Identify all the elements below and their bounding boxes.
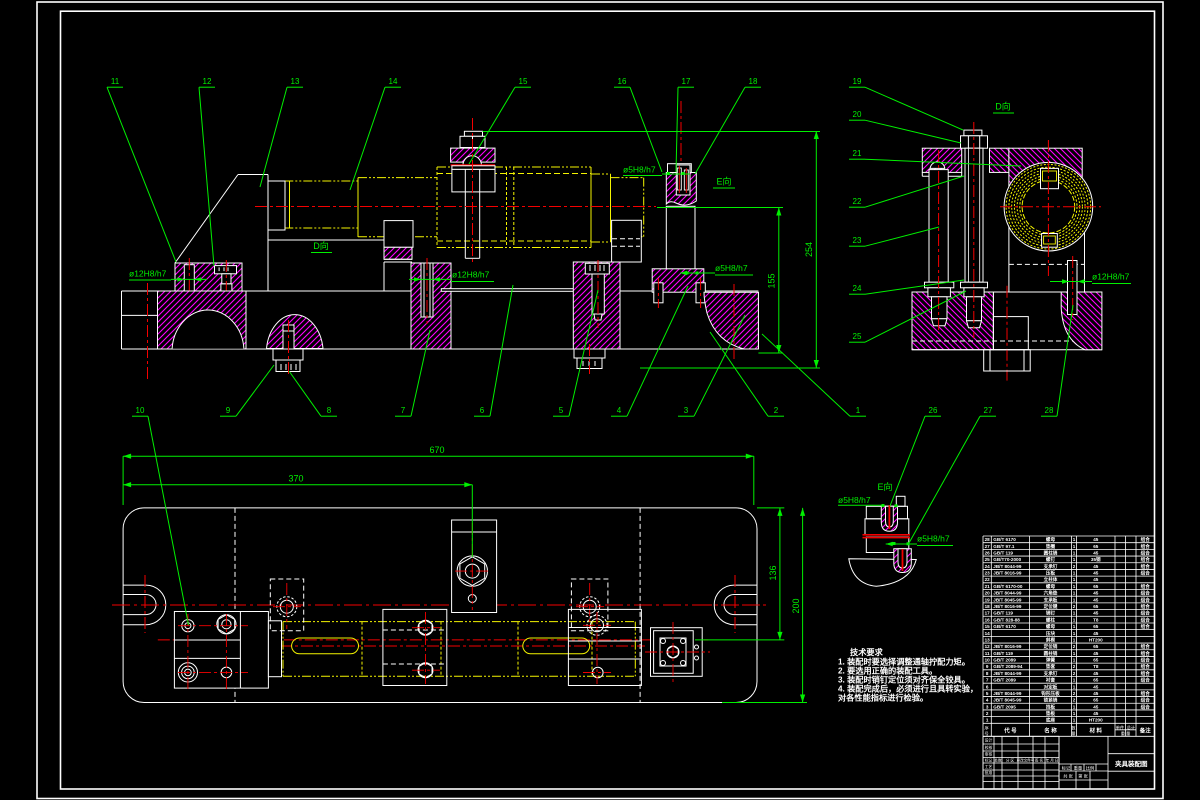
plan view: dome-bolt pedestal plan [270,579,303,631]
front view: thin adjust plate (part 6) [441,289,582,292]
dimension phi5H8/h7 mid [680,263,753,275]
svg-text:GB/T 828-88: GB/T 828-88 [993,617,1020,622]
svg-text:立柱体: 立柱体 [1044,576,1058,583]
svg-text:共 张: 共 张 [1063,773,1073,780]
detail view E: red joint lines [863,535,911,538]
svg-text:比例: 比例 [1086,765,1094,772]
svg-text:总计: 总计 [1127,724,1135,731]
side view: stud B with hex nut (parts 19/20) [961,122,988,338]
plan view: clamp strap plan [452,520,497,613]
svg-text:3. 装配时销钉定位须对齐保全铰具。: 3. 装配时销钉定位须对齐保全铰具。 [838,675,970,685]
plan view: left clamping U-slot [112,575,757,633]
svg-text:GB/T 97.1: GB/T 97.1 [993,544,1015,549]
svg-text:JB/T 8045-99: JB/T 8045-99 [993,597,1022,602]
svg-text:衬套: 衬套 [1046,677,1056,684]
svg-text:第 张: 第 张 [1078,773,1088,780]
svg-text:1: 1 [1073,704,1076,709]
svg-text:7: 7 [986,678,989,683]
balloon 22 leader [849,176,964,207]
svg-text:代 号: 代 号 [1003,726,1017,734]
svg-text:销钉: 销钉 [1046,610,1056,617]
svg-text:7: 7 [401,406,406,415]
plan view: left bracket block [174,612,281,691]
svg-text:4. 装配完成后，必须进行且具转实验，: 4. 装配完成后，必须进行且具转实验， [838,684,978,694]
svg-text:4: 4 [986,698,989,703]
svg-text:年 月 日: 年 月 日 [1046,758,1059,763]
svg-text:垫板: 垫板 [1046,710,1056,717]
svg-text:1: 1 [1073,684,1076,689]
svg-text:19: 19 [985,597,991,602]
svg-text:JB/T 8044-99: JB/T 8044-99 [993,591,1022,596]
svg-text:T8: T8 [1093,617,1099,622]
svg-text:ø5H8/h7: ø5H8/h7 [623,165,656,175]
balloon 24 leader [849,280,964,294]
front view: main shaft centerline [255,206,656,208]
svg-text:20: 20 [985,591,991,596]
svg-text:18: 18 [985,604,991,609]
side view: base middle [912,286,1102,381]
front view: dome mound over T-bolt [267,315,324,349]
svg-text:65: 65 [1093,584,1099,589]
balloon 2 leader [710,332,784,416]
svg-text:底座: 底座 [1046,717,1056,724]
svg-text:名 称: 名 称 [1044,726,1057,734]
svg-text:组合: 组合 [1141,570,1151,577]
svg-text:E向: E向 [877,481,892,492]
svg-text:65: 65 [1093,698,1099,703]
svg-text:HT200: HT200 [1089,637,1103,642]
svg-text:组合: 组合 [1141,643,1151,650]
svg-text:15: 15 [985,624,991,629]
dimension 200 [722,508,807,703]
side view: base right block (hatched, concave) [1061,292,1102,350]
svg-text:ø12H8/h7: ø12H8/h7 [1092,272,1130,282]
svg-text:23: 23 [985,571,991,576]
plan view: workpiece shaft (yellow phantom) [283,622,635,677]
plan view: left V-block plan [383,609,447,685]
dimension phi12H8/h7 mid [409,270,494,282]
svg-text:6: 6 [986,684,989,689]
balloon 5 leader [553,290,598,416]
svg-text:6: 6 [480,406,485,415]
svg-text:45: 45 [1093,671,1099,676]
front view: E column bushing pins (parts 16/17) [677,101,688,193]
svg-text:组合: 组合 [1141,556,1151,563]
svg-text:2: 2 [1073,664,1076,669]
front view: right support block (hatched, concave) [704,284,758,362]
svg-text:3: 3 [684,406,689,415]
svg-text:更改文件号: 更改文件号 [1017,758,1035,763]
svg-text:45: 45 [1093,597,1099,602]
balloon 14 leader [350,87,401,190]
svg-text:1: 1 [1073,711,1076,716]
svg-text:2: 2 [1073,691,1076,696]
plan view: E column clamp plan [645,622,710,682]
front view: bracket pins [654,278,706,308]
front view: left support block (hatched) [175,263,242,291]
svg-text:16: 16 [618,77,627,86]
front view: T-bolt (parts 8/9) [273,320,303,377]
front view: clamp strap (part 13, hatched) [451,148,495,162]
svg-text:组合: 组合 [1141,549,1151,556]
svg-text:1: 1 [1073,658,1076,663]
dimension phi5H8/h7 top [623,165,690,176]
balloon 6 leader [474,285,513,416]
plan view: shaft axis centerline [280,645,645,647]
svg-text:组合: 组合 [1141,603,1151,610]
svg-text:标记: 标记 [1062,765,1071,772]
svg-text:136: 136 [768,565,778,580]
svg-text:8: 8 [327,406,332,415]
svg-text:定位销: 定位销 [1044,643,1058,650]
balloon 16 leader [614,87,662,172]
svg-text:45: 45 [1093,651,1099,656]
side view: foot block [984,350,1030,371]
front view: pedestal dowel pin (part 7) [421,258,433,324]
svg-text:钩形压板: 钩形压板 [1041,690,1060,697]
balloon 26 leader [890,416,941,506]
dimension phi12H8/h7 left [129,269,207,282]
svg-text:1: 1 [1073,591,1076,596]
svg-text:技术要求: 技术要求 [850,647,884,657]
svg-text:圆柱销: 圆柱销 [1044,549,1058,556]
svg-text:9: 9 [226,406,231,415]
front view: pedestal cap screw (part 5) [585,260,609,328]
front view: E stop column cap [668,164,692,173]
svg-text:19: 19 [853,77,862,86]
svg-text:8: 8 [986,671,989,676]
plan view: right pedestal plan [571,579,608,631]
svg-text:45: 45 [1093,537,1099,542]
svg-text:5: 5 [986,691,989,696]
svg-text:2: 2 [1073,671,1076,676]
svg-text:65: 65 [1093,544,1099,549]
balloon 28 leader [1041,305,1073,416]
svg-text:ø12H8/h7: ø12H8/h7 [452,270,490,280]
svg-text:材 料: 材 料 [1089,726,1102,734]
balloon 10 leader [132,416,189,625]
svg-text:14: 14 [985,631,991,636]
plan view: right clamping U-slot [700,575,766,633]
svg-text:4: 4 [617,406,622,415]
side view: locating pin (part 28) [1068,256,1078,320]
svg-text:10: 10 [136,406,145,415]
svg-text:9: 9 [986,664,989,669]
svg-text:12: 12 [985,644,991,649]
svg-text:45: 45 [1093,611,1099,616]
svg-text:批准: 批准 [985,770,993,775]
balloon 15 leader [469,87,531,164]
front view: right V-block pedestal [612,220,642,262]
front view: angle bracket (tail stock wedge) [175,175,384,292]
svg-text:挡板: 挡板 [1046,703,1056,710]
svg-text:压板: 压板 [1046,570,1056,577]
svg-text:17: 17 [985,611,991,616]
svg-text:E向: E向 [716,176,731,187]
svg-text:25: 25 [985,557,991,562]
svg-text:JB/T 8016-99: JB/T 8016-99 [993,604,1022,609]
view label E (front view) [713,176,735,189]
balloon 9 leader [220,365,274,416]
svg-text:ø12H8/h7: ø12H8/h7 [129,269,167,279]
svg-text:组合: 组合 [1141,596,1151,603]
svg-text:65: 65 [1093,604,1099,609]
balloon 4 leader [611,286,688,416]
svg-text:GB/T 2089: GB/T 2089 [993,678,1016,683]
front view: strap body [452,169,495,192]
side view: base left block (hatched) [912,292,993,350]
svg-text:65: 65 [1093,658,1099,663]
svg-text:重量: 重量 [1074,765,1082,772]
front view: left V-block pedestal [384,221,413,291]
front view: E column base bracket (hatched) [652,269,704,292]
svg-text:1: 1 [1073,584,1076,589]
svg-text:670: 670 [429,445,444,455]
svg-text:支承钉: 支承钉 [1044,670,1058,677]
svg-text:组合: 组合 [1141,563,1151,570]
svg-text:JB/T 8044-99: JB/T 8044-99 [993,564,1022,569]
balloon 8 leader [289,371,337,416]
svg-text:18: 18 [749,77,758,86]
balloon 1 leader [762,334,866,416]
svg-text:45: 45 [1093,631,1099,636]
svg-text:45: 45 [1093,550,1099,555]
svg-text:处数: 处数 [994,758,1002,763]
svg-text:GB/T 2089-94: GB/T 2089-94 [993,664,1023,669]
front view: clamp bolt shank [465,118,479,263]
svg-text:65: 65 [1093,678,1099,683]
detail view E: bottom bowl segment [849,559,917,587]
svg-text:45: 45 [1093,564,1099,569]
svg-text:校核: 校核 [985,745,993,750]
plan view: main centerline [158,639,709,641]
svg-text:组合: 组合 [1141,703,1151,710]
svg-text:垫套: 垫套 [1046,663,1056,670]
svg-text:1: 1 [1073,651,1076,656]
balloon 12 leader [199,87,215,266]
svg-text:5: 5 [559,406,564,415]
view label D (front view) [311,240,332,253]
svg-text:12: 12 [203,77,212,86]
front view: workpiece shaft (yellow phantom) [284,167,643,248]
svg-text:13: 13 [985,637,991,642]
svg-text:65: 65 [1093,624,1099,629]
svg-text:28: 28 [985,537,991,542]
svg-text:45: 45 [1093,684,1099,689]
svg-text:2: 2 [1073,564,1076,569]
svg-text:组合: 组合 [1141,543,1151,550]
svg-text:1: 1 [1073,550,1076,555]
balloon 19 leader [849,87,963,130]
svg-text:65: 65 [1093,644,1099,649]
svg-text:组合: 组合 [1141,623,1151,630]
front view: clamp hex nut (part 15) [460,136,485,147]
svg-text:27: 27 [984,406,993,415]
dimension phi5H8/h7 detail upper [838,495,898,507]
svg-text:1: 1 [1073,617,1076,622]
svg-text:弹簧: 弹簧 [1046,657,1056,664]
svg-text:2: 2 [1073,604,1076,609]
svg-text:D向: D向 [313,240,329,251]
dimension 254 [483,131,821,368]
svg-text:24: 24 [853,284,862,293]
svg-text:GB/T 119: GB/T 119 [993,651,1013,656]
svg-text:1: 1 [1073,624,1076,629]
svg-text:GB/T 2089: GB/T 2089 [993,658,1016,663]
svg-text:定位键: 定位键 [1044,603,1058,610]
dimension 370 [123,474,472,558]
svg-text:155: 155 [767,273,777,288]
svg-text:17: 17 [682,77,691,86]
svg-text:T8: T8 [1093,664,1099,669]
svg-text:组合: 组合 [1141,650,1151,657]
svg-text:备注: 备注 [1139,726,1152,734]
svg-text:2: 2 [1073,644,1076,649]
svg-text:1: 1 [1073,637,1076,642]
balloon 11 leader [107,87,176,262]
svg-text:螺柱: 螺柱 [1046,616,1056,623]
svg-text:GB/T 6170-00: GB/T 6170-00 [993,584,1023,589]
svg-text:JB/T 8044-99: JB/T 8044-99 [993,691,1022,696]
svg-text:签 名: 签 名 [1035,758,1044,763]
svg-text:2. 要选用正确的装配工具。: 2. 要选用正确的装配工具。 [838,666,937,676]
svg-text:2: 2 [986,711,989,716]
svg-text:11: 11 [985,651,990,656]
plan view: right V-block plan [568,609,641,685]
svg-text:夹具装配图: 夹具装配图 [1115,759,1148,768]
svg-text:1: 1 [1073,557,1076,562]
svg-text:组合: 组合 [1141,670,1151,677]
svg-text:45: 45 [1093,571,1099,576]
svg-text:1: 1 [1073,678,1076,683]
svg-text:垫圈: 垫圈 [1046,543,1056,550]
svg-text:26: 26 [985,550,991,555]
front view: base mounting hole centerline [147,283,149,379]
side view: stud A (part 23) [925,150,954,334]
svg-text:45: 45 [1093,704,1099,709]
front view: dowel pin (part 11) [184,258,194,322]
svg-text:标记: 标记 [985,758,993,763]
svg-text:1: 1 [1073,577,1076,582]
BOM parts table [983,536,1154,737]
svg-text:2: 2 [774,406,779,415]
svg-text:45: 45 [1093,691,1099,696]
front view: right pedestal web (hatched) [573,262,620,349]
svg-text:2: 2 [1073,698,1076,703]
svg-text:D向: D向 [995,101,1011,112]
balloon 23 leader [849,227,939,246]
balloon 25 leader [849,291,966,342]
front view: left pedestal web (hatched) [411,263,451,349]
svg-text:设计: 设计 [985,738,993,743]
dimension phi5H8/h7 detail lower [886,534,953,547]
balloon 27 leader [909,416,996,543]
front view: E column body [666,206,695,269]
svg-text:45: 45 [1093,591,1099,596]
svg-text:JB/T 8016-99: JB/T 8016-99 [993,571,1022,576]
side view: top clamp plate left part (hatched) [922,148,961,176]
side view: body around bore [1009,189,1085,292]
svg-text:审核: 审核 [985,752,993,757]
balloon 21 leader [849,159,1021,166]
svg-text:JB/T 8045-99: JB/T 8045-99 [993,698,1022,703]
front view: base plate [122,291,759,349]
svg-text:13: 13 [291,77,300,86]
dimension 670 [123,445,754,505]
svg-text:20: 20 [853,110,862,119]
svg-text:GB/T 6170: GB/T 6170 [993,624,1016,629]
svg-text:GB/T 6170: GB/T 6170 [993,537,1016,542]
svg-text:组合: 组合 [1141,677,1151,684]
balloon 7 leader [395,330,430,416]
svg-text:200: 200 [791,598,801,613]
front view: base left hatched mound with cored bowl [158,292,247,395]
side view: base top surface [912,291,1102,293]
svg-text:螺母: 螺母 [1046,536,1056,543]
svg-text:压块: 压块 [1046,630,1056,637]
svg-text:重 量: 重 量 [1121,730,1131,737]
svg-text:支承钉: 支承钉 [1044,563,1058,570]
svg-text:ø5H8/h7: ø5H8/h7 [838,495,871,505]
svg-text:支承板: 支承板 [1044,596,1058,603]
svg-text:1: 1 [1073,718,1076,723]
detail view E: lower bushing (hatched) [894,549,912,573]
dimension 136 [695,508,784,640]
svg-text:3: 3 [986,704,989,709]
svg-text:单件: 单件 [1116,724,1124,731]
svg-text:对定板: 对定板 [1044,683,1058,690]
svg-text:35钢: 35钢 [1091,556,1101,563]
dimension phi12H8/h7 side view [1050,272,1131,284]
front view: lower T-bolt right (part 4 fasteners) [574,344,605,374]
svg-text:24: 24 [985,564,991,569]
svg-text:组合: 组合 [1141,657,1151,664]
svg-text:ø5H8/h7: ø5H8/h7 [917,534,950,544]
svg-text:螺母: 螺母 [1046,583,1056,590]
technical notes text [838,647,978,703]
svg-text:圆柱销: 圆柱销 [1044,650,1058,657]
svg-text:45: 45 [1093,711,1099,716]
svg-text:1: 1 [1073,537,1076,542]
svg-text:组合: 组合 [1141,590,1151,597]
front view: E column head (hatched) [666,165,696,205]
dimension 155 [657,208,783,354]
view label E (detail view) [877,481,892,492]
svg-text:26: 26 [929,406,938,415]
plan view: base plate outline [123,508,757,703]
svg-text:1: 1 [1073,544,1076,549]
svg-text:1: 1 [986,718,989,723]
svg-text:对各性能指标进行检验。: 对各性能指标进行检验。 [838,693,928,703]
svg-text:GB/T 119: GB/T 119 [993,611,1013,616]
svg-text:六角垫: 六角垫 [1044,590,1058,597]
title block [983,736,1154,789]
svg-text:组合: 组合 [1141,583,1151,590]
svg-text:10: 10 [985,658,991,663]
svg-text:23: 23 [853,236,862,245]
svg-text:11: 11 [111,77,120,86]
balloon 17 leader [676,87,694,172]
balloon 18 leader [695,87,761,174]
svg-text:14: 14 [389,77,398,86]
side view: bore circle with knurled bushing (yellow) [1000,140,1101,276]
svg-text:370: 370 [288,474,303,484]
svg-text:21: 21 [853,149,862,158]
detail view E: stop pin body [865,496,909,552]
svg-text:组合: 组合 [1141,690,1151,697]
svg-text:工艺: 工艺 [985,764,993,769]
svg-text:组合: 组合 [1141,697,1151,704]
